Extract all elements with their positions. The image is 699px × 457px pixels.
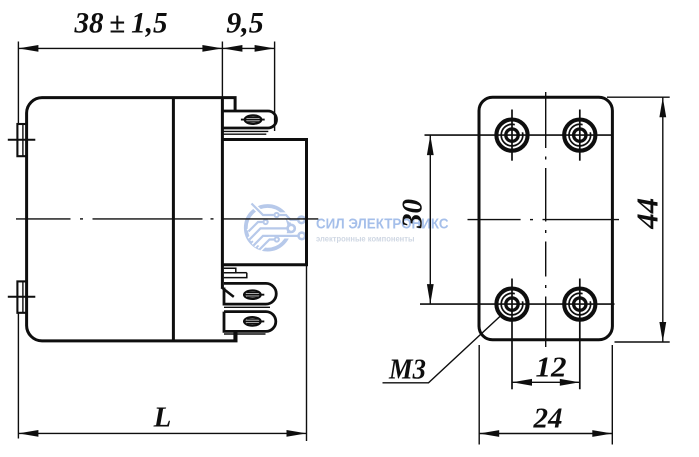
relay body outline (27, 98, 236, 341)
watermark circuit traces (249, 204, 299, 250)
svg-text:L: L (153, 401, 172, 433)
mounting hole top-left (496, 120, 527, 151)
mounting hole bottom-right (564, 289, 595, 320)
top mounting lug (8, 124, 36, 156)
right view vertical centerline (545, 92, 547, 347)
blade 3 oval hole (243, 317, 264, 326)
dimension line 44 (662, 97, 664, 342)
dimension 44 extension bottom (615, 341, 670, 343)
watermark logo circle (246, 206, 290, 250)
dimension line 12 (512, 381, 580, 383)
bottom step vertical (233, 331, 236, 341)
dimension 44 extension top (607, 96, 670, 98)
blade 1 oval hole (241, 115, 265, 124)
dimension 24 extension left (478, 345, 480, 445)
dimension line L (18, 432, 306, 434)
M3 leader line (383, 316, 501, 383)
thin line under blade 3 (224, 333, 266, 335)
rear section box (222, 140, 306, 265)
hole row line bottom (420, 303, 615, 305)
dimension 38 extension left (17, 42, 19, 124)
hole row line top (425, 134, 613, 136)
dimension L extension left (17, 313, 19, 439)
svg-text:44: 44 (630, 198, 665, 230)
svg-text:30: 30 (397, 199, 429, 229)
step lines under rear box (224, 268, 247, 277)
hole column line top-left (511, 110, 513, 161)
thin line between blades (224, 306, 270, 308)
mounting hole top-right (564, 120, 595, 151)
body inner vertical line (172, 98, 175, 341)
dimension L extension right (306, 265, 308, 441)
thin lines under blade 1 (224, 130, 269, 132)
blade terminal 2 (224, 283, 276, 304)
dimension 9,5 extension right (274, 42, 276, 132)
dimension line 9,5 (222, 47, 274, 49)
dimension 24 extension right (611, 345, 613, 445)
svg-text:СИЛ ЭЛЕКТРОНИКС: СИЛ ЭЛЕКТРОНИКС (316, 216, 449, 233)
diagonal bend (221, 287, 233, 297)
watermark vias (264, 213, 306, 242)
dimension line 24 (479, 433, 612, 435)
left view centerline (16, 218, 318, 220)
dimension line 38 (18, 47, 222, 49)
svg-text:M3: M3 (388, 353, 426, 385)
dimension extension x=222.5 above body (221, 42, 223, 98)
body right edge (221, 98, 224, 289)
blade 2 oval hole (243, 290, 264, 299)
mounting hole bottom-left (496, 289, 527, 320)
right view outline (479, 97, 612, 340)
svg-text:12: 12 (536, 352, 567, 384)
hole column line bottom-left (511, 279, 513, 390)
hole column line top-right (579, 110, 581, 161)
svg-text:24: 24 (533, 402, 563, 434)
svg-text:электронные компоненты: электронные компоненты (316, 233, 415, 243)
dimension line 30 (429, 135, 431, 304)
svg-text:9,5: 9,5 (226, 7, 264, 40)
hole column line bottom-right (579, 279, 581, 390)
svg-text:38 ± 1,5: 38 ± 1,5 (74, 7, 168, 40)
bottom mounting lug (8, 281, 36, 312)
blade terminal 3 (224, 312, 276, 332)
right view horizontal centerline (468, 219, 620, 221)
blade terminal 1 (223, 111, 277, 128)
